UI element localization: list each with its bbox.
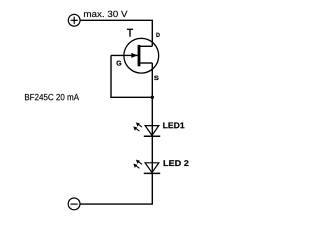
transistor drain lead — [139, 45, 152, 47]
label T — [127, 29, 133, 37]
terminal - (supply negative) — [68, 198, 80, 210]
transistor channel bar — [138, 45, 141, 66]
pin label S — [154, 76, 159, 80]
transistor U1 JFET BF245C body circle — [124, 38, 159, 73]
pin label D — [156, 33, 159, 37]
terminal + (supply positive) — [68, 14, 80, 26]
LED2 diode triangle — [145, 163, 159, 173]
junction gate-source node — [151, 96, 154, 99]
label LED 2 — [164, 160, 189, 166]
wire source down to minus — [80, 63, 152, 204]
transistor gate lead with arrow — [111, 53, 138, 58]
LED1 light arrows — [133, 122, 142, 131]
wire gate to source loop — [111, 55, 152, 97]
LED1 diode triangle — [145, 126, 159, 136]
LED2 cathode bar — [144, 172, 160, 174]
label LED1 — [163, 122, 184, 128]
label BF245C 20 mA — [25, 94, 79, 100]
label max. 30 V — [84, 11, 128, 17]
wire from + to drain — [80, 20, 152, 46]
transistor source lead — [139, 62, 152, 64]
pin label G — [117, 61, 122, 66]
LED1 cathode bar — [144, 135, 160, 137]
LED2 light arrows — [133, 160, 142, 169]
